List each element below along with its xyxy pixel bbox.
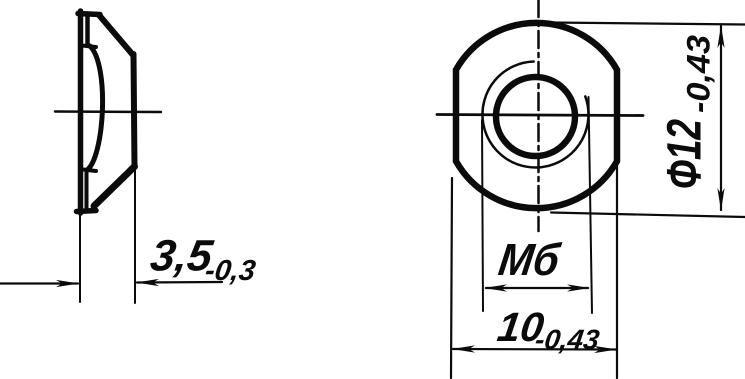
dimension 3,5 left line: [0, 282, 78, 284]
right view: vertical centerline dash-dot: [537, 0, 540, 231]
diameter text F12-0,43 rotated: [659, 35, 717, 189]
10 extension line right: [616, 163, 618, 378]
svg-text:-0,43: -0,43: [681, 35, 717, 113]
dimension 3,5 right arrow: [136, 279, 159, 286]
left view: spherical face arc: [87, 46, 103, 170]
left view: top slot inner line: [85, 15, 90, 45]
svg-text:-0,43: -0,43: [533, 324, 601, 355]
left view: extension line right: [134, 170, 136, 303]
right view: thread arc M6: [482, 62, 588, 168]
left view: top slanted edge: [99, 15, 133, 55]
10 arrow right: [594, 346, 617, 353]
M6 dimension line: [486, 287, 588, 289]
10 extension line left: [451, 178, 452, 378]
dimension 3,5 right line: [137, 281, 222, 284]
svg-text:Мб: Мб: [496, 234, 564, 285]
left view: back face vertical line: [78, 11, 84, 213]
F12 bottom extension line: [551, 213, 745, 218]
F12 top extension line: [550, 23, 745, 25]
right view: outer outline (circle with flats): [456, 23, 617, 208]
M6 arrow left: [484, 284, 507, 291]
F12 arrow bottom: [717, 188, 724, 211]
dimension 3,5 left arrow: [56, 280, 79, 287]
left view: right flat edge: [134, 54, 135, 167]
F12 arrow top: [717, 25, 724, 48]
svg-text:-0,3: -0,3: [203, 255, 257, 287]
M6 arrow right: [567, 284, 590, 291]
left view: top slot tick: [82, 46, 96, 48]
right view: horizontal centerline: [437, 115, 643, 116]
10 dimension line: [453, 348, 616, 351]
10 arrow left: [452, 345, 475, 352]
M6 extension line left: [482, 120, 483, 311]
left view: bottom slanted edge: [94, 167, 135, 207]
right view: hole circle: [496, 77, 575, 156]
M6 extension line right: [589, 97, 593, 313]
left view: bottom slot inner line: [85, 172, 89, 209]
left view: bottom edge: [77, 211, 97, 212]
F12 dimension line vertical: [720, 26, 722, 210]
left view: top edge: [78, 14, 100, 15]
left view: horizontal centerline: [55, 110, 161, 113]
svg-text:Ф12: Ф12: [659, 119, 712, 189]
left view: extension line left: [79, 214, 81, 302]
left view: bottom slot tick: [83, 170, 96, 172]
